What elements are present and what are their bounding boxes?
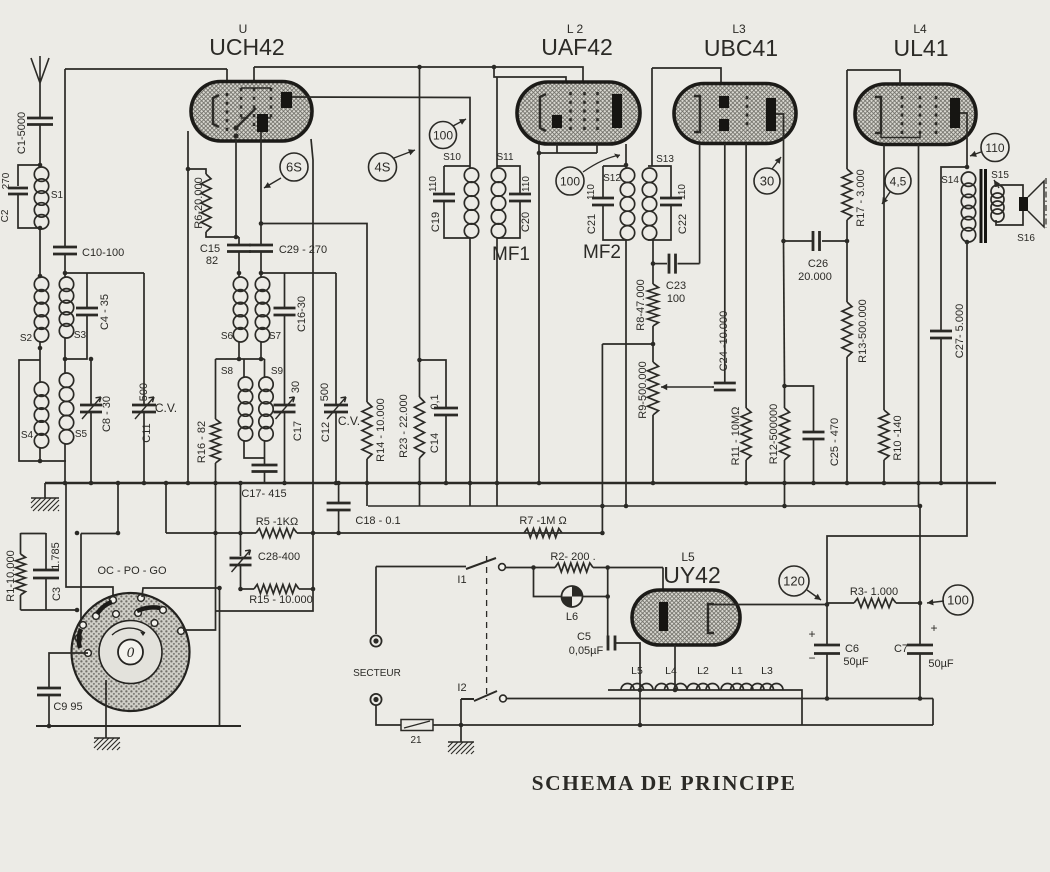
- node dial feed a bottom: [75, 608, 80, 613]
- svg-text:C1-5000: C1-5000: [16, 112, 28, 154]
- wire S13 top: [648, 166, 671, 198]
- node UAF42 cathode bus: [537, 481, 542, 486]
- svg-text:S14: S14: [941, 175, 959, 186]
- svg-text:S11: S11: [496, 152, 513, 163]
- tube U2 UAF42: [517, 82, 640, 144]
- wire UAF42 pin b1: [556, 144, 558, 153]
- node choke heater: [673, 688, 678, 693]
- wire det to C23: [653, 263, 667, 265]
- wire UAF42 cathode to bus: [538, 144, 540, 484]
- wire S3 to S5: [64, 338, 66, 373]
- wire top bus left: [65, 68, 227, 70]
- svg-text:UCH42: UCH42: [209, 34, 284, 60]
- svg-text:R15 - 10.000: R15 - 10.000: [249, 594, 313, 606]
- rail join right: [932, 699, 934, 726]
- arrow 30: [772, 157, 781, 169]
- wire UBC41 grid down: [699, 144, 701, 264]
- rail I2 output: [507, 698, 934, 700]
- speaker S16 magnet: [1019, 197, 1028, 211]
- wire C9 link: [49, 653, 88, 688]
- choke L3: [751, 684, 764, 691]
- wire C16 branch: [284, 273, 286, 308]
- wire S13 riser: [651, 68, 653, 166]
- node C26 left: [781, 239, 786, 244]
- capacitor C10: [53, 247, 77, 254]
- wire R8 top lead: [652, 264, 654, 284]
- wire UCH42 triode anode down: [260, 132, 262, 224]
- svg-text:L6: L6: [566, 611, 578, 623]
- wire UCH42 pin drop: [226, 69, 228, 93]
- node Z1 right: [459, 723, 464, 728]
- wire secteur 2 down: [376, 705, 401, 725]
- wire UBC41 r11 col: [745, 144, 747, 409]
- svg-text:SCHEMA DE PRINCIPE: SCHEMA DE PRINCIPE: [532, 771, 797, 795]
- wire C12 branch: [335, 273, 337, 405]
- node C6 rail: [825, 696, 830, 701]
- coil S6: [233, 277, 247, 291]
- wire C23 to UBC41 grid: [678, 263, 700, 265]
- node UAF42 bracket: [537, 151, 542, 156]
- wire antenna to C1: [39, 83, 41, 118]
- node C25 bus: [811, 481, 816, 486]
- wire C19 col: [443, 166, 445, 194]
- svg-text:R1-10.000: R1-10.000: [5, 550, 17, 601]
- node antenna coil top: [38, 163, 43, 168]
- svg-text:C10-100: C10-100: [82, 247, 124, 259]
- svg-text:C16-30: C16-30: [296, 296, 308, 332]
- wire UCH42 hexode anode out: [292, 97, 470, 168]
- ground dial: [94, 737, 120, 739]
- antenna: [31, 56, 49, 83]
- svg-text:R14 - 10.000: R14 - 10.000: [375, 398, 387, 462]
- node line3 x313: [311, 531, 316, 536]
- wire S8 lead: [243, 359, 245, 377]
- wire C7 bottom: [919, 654, 921, 699]
- svg-text:110: 110: [985, 141, 1004, 155]
- capacitor C11 tuning: [132, 405, 156, 412]
- svg-text:C26: C26: [808, 258, 828, 270]
- wire UL41 anode out: [960, 113, 967, 168]
- tube U1 grid g4: [270, 88, 273, 118]
- svg-text:50µF: 50µF: [843, 656, 869, 668]
- wire S15 loop: [996, 185, 1023, 225]
- speaker axis: [1045, 178, 1047, 228]
- svg-text:C17: C17: [292, 421, 304, 441]
- node C28 top: [238, 531, 243, 536]
- tube U4 UL41: [855, 84, 976, 145]
- capacitor C25: [803, 432, 825, 439]
- node R15 left: [238, 587, 243, 592]
- wire C3 bottom: [45, 578, 47, 610]
- coil S14: [961, 172, 975, 186]
- wire R16 to bus: [215, 463, 217, 484]
- wire osc top link: [261, 272, 336, 274]
- svg-text:C24 -10.000: C24 -10.000: [718, 311, 730, 372]
- note 100 c: [943, 585, 973, 615]
- wire C11 branch top: [143, 273, 145, 405]
- switch I1: [466, 558, 496, 569]
- resistor R14: [362, 402, 372, 459]
- svg-text:C19: C19: [430, 212, 442, 232]
- note 4,5: [885, 168, 911, 194]
- note 120: [779, 566, 809, 596]
- svg-text:100: 100: [433, 128, 453, 142]
- resistor R17: [842, 169, 852, 220]
- wire RF top link: [65, 272, 144, 274]
- wire C26 right lead: [822, 240, 847, 242]
- coil S3: [59, 277, 73, 291]
- wire C2 branch top: [18, 165, 40, 186]
- svg-text:C15: C15: [200, 243, 220, 255]
- wire UL41 cathode col: [918, 145, 920, 507]
- lamp L6: [562, 586, 583, 607]
- wire C18 drop: [338, 483, 340, 503]
- node C12 bus: [334, 481, 339, 486]
- wire UCH42 triode grid line: [216, 139, 314, 611]
- wire S13 bottom: [652, 240, 654, 264]
- node S4 bottom: [38, 459, 43, 464]
- dial contact 9: [178, 628, 185, 635]
- node S14 bottom: [965, 240, 970, 245]
- svg-text:R17 - 3.000: R17 - 3.000: [855, 169, 867, 226]
- svg-text:S10: S10: [443, 152, 461, 163]
- terminal secteur 1: [370, 635, 381, 646]
- tube U4 grid g2: [919, 96, 922, 134]
- capacitor C29: [249, 245, 273, 252]
- svg-text:R5 -1KΩ: R5 -1KΩ: [256, 516, 298, 528]
- capacitor C17 trimmer: [274, 405, 296, 412]
- switch I2: [461, 691, 497, 701]
- node C8 top: [89, 357, 94, 362]
- wire R10 to bus: [883, 460, 885, 484]
- choke L4: [655, 684, 668, 691]
- svg-text:C28-400: C28-400: [258, 551, 300, 563]
- svg-text:R8-47.000: R8-47.000: [635, 279, 647, 330]
- node line2 right: [918, 504, 923, 509]
- capacitor C14: [434, 408, 458, 415]
- svg-text:R2- 200 .: R2- 200 .: [550, 551, 595, 563]
- arrow R9 wiper: [661, 386, 712, 388]
- node C8 bus: [89, 481, 94, 486]
- node R11 bus: [744, 481, 749, 486]
- wire C2 branch bottom: [18, 194, 40, 228]
- wire C25 to bus: [813, 439, 815, 484]
- wire UCH42 cathode to bus: [187, 131, 189, 484]
- arrow 110: [970, 152, 981, 156]
- resistor R23: [415, 397, 425, 458]
- node cathode bus: [186, 481, 191, 486]
- tube U1 grid g1: [226, 93, 229, 131]
- node C15 top: [234, 235, 239, 240]
- wire C3 col: [45, 533, 47, 570]
- tube U1 cathode: [213, 95, 219, 127]
- svg-text:L5: L5: [631, 665, 643, 677]
- node S3 top: [63, 271, 68, 276]
- svg-text:C29 - 270: C29 - 270: [279, 244, 327, 256]
- wire C8 to bus: [90, 412, 92, 484]
- node C26 right: [845, 239, 850, 244]
- tube U3 anode: [766, 98, 776, 131]
- svg-text:C17- 415: C17- 415: [241, 488, 286, 500]
- wire S11 top: [497, 166, 520, 194]
- wire C1 to S1: [39, 125, 41, 168]
- node S11 bus: [495, 481, 500, 486]
- tube U1 grid g3: [253, 88, 256, 131]
- node S7 top: [259, 271, 264, 276]
- coil S9: [259, 377, 273, 391]
- node C18 top: [336, 481, 341, 486]
- wire UBC41 anode step: [776, 114, 784, 241]
- note 6S: [280, 153, 308, 181]
- wire C26 left lead: [784, 240, 814, 242]
- coil S8: [238, 377, 252, 391]
- node C27 bus: [939, 481, 944, 486]
- wire osc to R14 column: [261, 224, 367, 403]
- capacitor C18: [327, 503, 351, 510]
- node R15 right: [311, 587, 316, 592]
- svg-text:UBC41: UBC41: [704, 35, 778, 61]
- svg-text:4,5: 4,5: [890, 174, 907, 188]
- dial wiper 1: [97, 602, 112, 614]
- tube U5 cathode: [708, 604, 714, 633]
- tube U5 anode: [659, 602, 668, 631]
- node C11 bus: [142, 481, 147, 486]
- node R14 bus: [365, 481, 370, 486]
- wire C14 to bus: [445, 415, 447, 484]
- wire anode col to R12: [784, 241, 785, 386]
- wire C9 to ground: [48, 695, 50, 726]
- wire C15 to S6: [238, 237, 240, 245]
- wire S8 S9 bottoms: [244, 441, 265, 458]
- wire UAF42 pin bracket: [539, 152, 597, 154]
- wire R23 column: [419, 67, 421, 397]
- wire UCH42 g to C15: [235, 139, 237, 237]
- svg-text:R23 - 22.000: R23 - 22.000: [398, 394, 410, 458]
- wire S7 bottom: [260, 342, 262, 359]
- wire R12 top lead: [784, 386, 786, 408]
- note 30: [754, 168, 780, 194]
- svg-text:S7: S7: [269, 331, 282, 342]
- capacitor C12 tuning arrow: [327, 397, 346, 419]
- tube U3 diode anode 1: [719, 96, 729, 108]
- svg-text:UAF42: UAF42: [541, 34, 613, 60]
- resistor R7: [524, 529, 562, 538]
- capacitor C24: [714, 383, 736, 390]
- capacitor C1: [27, 118, 53, 125]
- tube U4 internal link: [881, 133, 920, 138]
- svg-text:R16 - 82: R16 - 82: [196, 421, 208, 463]
- svg-text:L4: L4: [913, 22, 927, 36]
- dial outer: [72, 593, 190, 711]
- svg-text:C14: C14: [429, 433, 441, 453]
- note 100 a: [430, 122, 457, 149]
- arrow 100 a: [453, 119, 466, 126]
- node bus B R23 tap: [417, 65, 422, 70]
- wire bus to line3 link b: [165, 483, 167, 533]
- tube U2 grid g2: [583, 92, 586, 133]
- tube U3 diode anode 2: [719, 119, 729, 131]
- svg-text:1.785: 1.785: [50, 542, 62, 570]
- svg-text:270: 270: [1, 172, 12, 189]
- wire ground stub z1: [460, 725, 462, 742]
- wire R6 top jog: [188, 169, 206, 174]
- wire R15 left lead: [241, 588, 255, 590]
- wire S4 bottom: [40, 448, 66, 461]
- note 110: [981, 134, 1009, 162]
- wire C27 to bus: [940, 338, 942, 484]
- wire S1 to S2: [39, 229, 41, 277]
- wire C14 jog: [420, 360, 447, 408]
- svg-text:OC - PO - GO: OC - PO - GO: [97, 565, 167, 577]
- capacitor C21: [592, 198, 614, 205]
- tube U1 triode anode: [257, 114, 268, 132]
- resistor R2: [555, 563, 593, 572]
- svg-text:100: 100: [947, 593, 969, 608]
- node C9 ground: [47, 724, 52, 729]
- svg-text:R7 -1M Ω: R7 -1M Ω: [519, 515, 566, 527]
- wire R14 to bus: [366, 459, 368, 506]
- wire Z1 to I2: [433, 699, 461, 725]
- wire C6 bottom: [826, 654, 828, 699]
- node S7 bottom: [259, 357, 264, 362]
- bus line3 seg3: [166, 532, 256, 534]
- capacitor C11 tuning arrow: [135, 397, 154, 419]
- wire S12 bottom drop: [625, 240, 627, 506]
- wire C4 to S3 bottom: [65, 315, 87, 359]
- wire lamp riser: [534, 568, 562, 597]
- wire S11 riser: [496, 77, 498, 168]
- wire R6 bottom jog: [206, 232, 239, 237]
- dial contact 10: [85, 650, 92, 657]
- svg-text:L4: L4: [665, 665, 677, 677]
- resistor R8: [648, 284, 659, 326]
- svg-text:R3- 1.000: R3- 1.000: [850, 586, 898, 598]
- wire AVC drop: [601, 344, 603, 533]
- tube U2 grid g1: [569, 92, 572, 133]
- capacitor padding: [252, 465, 278, 472]
- node C18 line3: [336, 531, 341, 536]
- svg-text:100: 100: [667, 293, 685, 305]
- svg-text:50µF: 50µF: [928, 658, 954, 670]
- svg-text:C20: C20: [520, 212, 532, 232]
- svg-text:6S: 6S: [286, 160, 302, 175]
- svg-text:C8 - 30: C8 - 30: [101, 396, 113, 432]
- node osc junction: [259, 221, 264, 226]
- wire jumper to R17: [846, 70, 848, 169]
- node C5 bottom rail: [638, 723, 643, 728]
- wire C21 col: [602, 166, 604, 198]
- wire S5 to bus: [64, 444, 66, 484]
- leader 100 b: [583, 155, 620, 172]
- bus line3 seg2: [81, 533, 118, 535]
- dial contact 5: [135, 610, 142, 617]
- resistor R1: [16, 554, 26, 595]
- wire C21 bottom: [603, 205, 626, 240]
- node R23 bus: [417, 481, 422, 486]
- node R12 bus: [782, 481, 787, 486]
- wire I1 to R2: [506, 567, 556, 569]
- svg-text:L2: L2: [697, 665, 709, 677]
- choke L1: [721, 684, 734, 691]
- svg-text:I2: I2: [457, 682, 466, 694]
- coil S12: [620, 168, 634, 182]
- wire C28 to R15: [240, 565, 242, 589]
- capacitor C26: [813, 231, 820, 251]
- node det: [651, 261, 656, 266]
- resistor R10: [879, 410, 889, 460]
- svg-text:S2: S2: [20, 333, 33, 344]
- svg-text:C12: C12: [320, 422, 332, 442]
- node MF2 feed: [624, 163, 629, 168]
- svg-text:C4 - 35: C4 - 35: [99, 294, 111, 330]
- terminal secteur 2: [370, 694, 381, 705]
- svg-text:S1: S1: [51, 190, 64, 201]
- svg-text:S6: S6: [221, 331, 234, 342]
- wire R23 to line2: [419, 458, 421, 506]
- wire dial right col: [219, 588, 221, 726]
- wire UBC41 c24 col: [724, 144, 726, 384]
- svg-text:C21: C21: [586, 214, 598, 234]
- tube U1 grid g2: [240, 88, 243, 118]
- resistor R5: [256, 529, 297, 538]
- resistor R11: [741, 408, 751, 460]
- wire UCH42 pin drop 2: [253, 67, 255, 92]
- wire UBC41 grid jumper: [652, 68, 721, 86]
- node lamp riser: [531, 565, 536, 570]
- dial contact 7: [151, 620, 158, 627]
- node dial right col: [217, 586, 222, 591]
- tube U4 anode: [950, 98, 960, 128]
- wire R17 to C26: [846, 220, 848, 302]
- dial contact 8: [80, 622, 87, 629]
- svg-text:MF1: MF1: [492, 244, 530, 265]
- svg-text:R11 - 10MΩ: R11 - 10MΩ: [730, 407, 742, 466]
- transformer core: [981, 169, 986, 243]
- node AVC line2: [600, 504, 605, 509]
- svg-text:C23: C23: [666, 280, 686, 292]
- node C14 tap: [417, 358, 422, 363]
- svg-text:S9: S9: [271, 366, 284, 377]
- capacitor C4: [76, 308, 98, 315]
- note 100 b: [556, 167, 584, 195]
- svg-text:500: 500: [319, 383, 331, 401]
- dial hub: [118, 640, 143, 665]
- node line3 R16: [213, 531, 218, 536]
- arrow 120: [807, 590, 821, 600]
- wire S2 to S4: [39, 342, 41, 382]
- coil S2: [34, 277, 48, 291]
- resistor R16: [211, 419, 221, 463]
- svg-text:I1: I1: [457, 574, 466, 586]
- wire UY42 heater pin: [674, 645, 676, 690]
- bus line3 seg1: [21, 533, 46, 535]
- tube U3 UBC41: [674, 84, 796, 144]
- wire S14 top jog: [941, 167, 967, 331]
- dial contact 3: [93, 613, 100, 620]
- wire bus to line3 link: [117, 483, 119, 533]
- wire UL41 grid jumper: [847, 70, 900, 86]
- resistor R15: [254, 585, 299, 594]
- svg-text:82: 82: [206, 255, 218, 267]
- node C17 bus: [282, 481, 287, 486]
- node C28 bus: [238, 481, 243, 486]
- dial contact 6: [160, 607, 167, 614]
- wire R8 bottom: [652, 326, 654, 362]
- svg-text:L3: L3: [761, 665, 773, 677]
- svg-text:C3: C3: [51, 587, 63, 601]
- wire MF1 prim top: [444, 165, 470, 167]
- svg-text:C11: C11: [141, 423, 153, 442]
